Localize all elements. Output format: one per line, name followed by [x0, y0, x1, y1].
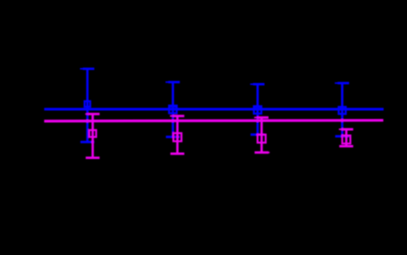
blue errorbar 1 bottom cap: [80, 141, 94, 143]
blue errorbar 4 bottom cap: [335, 135, 349, 137]
blue errorbar 2 stem: [172, 82, 174, 137]
blue errorbar 4 stem: [341, 83, 343, 136]
magenta point 4 square marker: [342, 135, 350, 143]
blue errorbar 2 top cap: [166, 81, 180, 83]
magenta errorbar 4 top cap: [339, 128, 353, 130]
blue point 2 square marker: [169, 106, 176, 108]
magenta errorbar 2 bottom cap: [170, 152, 184, 154]
magenta point 1 square marker: [89, 130, 96, 137]
blue errorbar 2 bottom cap: [166, 136, 180, 138]
blue errorbar 4 top cap: [335, 82, 349, 84]
magenta errorbar 4 stem: [345, 129, 347, 146]
magenta fit line: [44, 119, 383, 122]
blue point 4 square marker: [339, 107, 346, 114]
magenta errorbar 2 top cap: [170, 115, 184, 117]
magenta point 3 square marker: [258, 135, 266, 143]
magenta errorbar 3 stem: [260, 118, 262, 153]
blue errorbar 3 stem: [256, 84, 258, 134]
magenta errorbar 4 bottom cap: [339, 145, 353, 147]
blue errorbar 1 stem: [86, 69, 88, 142]
magenta point 2 square marker: [173, 133, 181, 141]
magenta errorbar 3 bottom cap: [255, 151, 270, 153]
blue errorbar 3 bottom cap: [251, 133, 265, 135]
magenta errorbar 3 top cap: [254, 117, 268, 119]
magenta errorbar 1 top cap: [85, 113, 99, 115]
blue point 3 square marker: [254, 106, 261, 108]
blue point 1 square marker: [85, 101, 91, 107]
blue errorbar 3 top cap: [250, 83, 264, 85]
magenta errorbar 1 bottom cap: [86, 157, 100, 159]
blue fit line: [44, 108, 383, 111]
magenta errorbar 2 stem: [176, 116, 178, 154]
blue errorbar 1 top cap: [80, 68, 94, 70]
magenta errorbar 1 stem: [92, 114, 94, 158]
